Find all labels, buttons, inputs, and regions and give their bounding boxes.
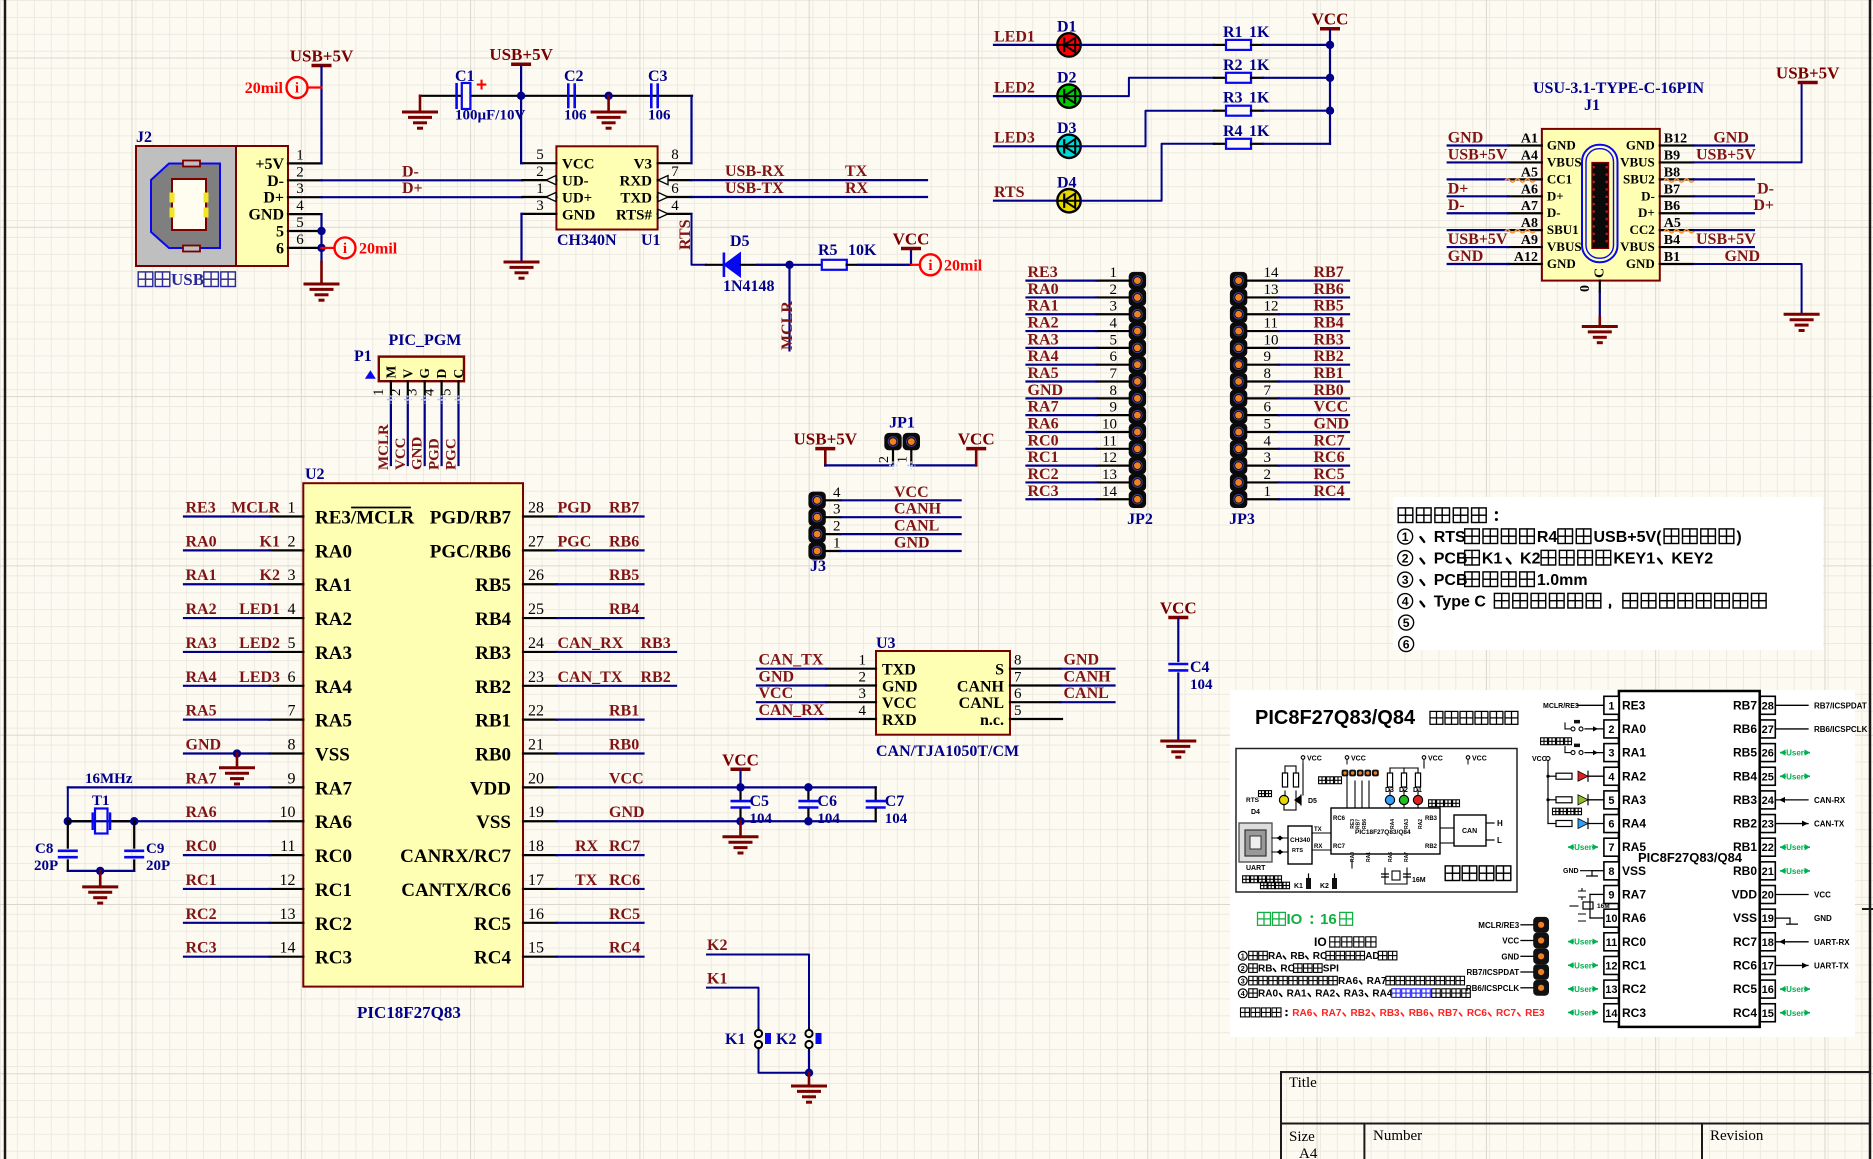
IC U2 PIC18F27Q83 body xyxy=(303,483,523,986)
svg-text:LED1: LED1 xyxy=(994,28,1035,45)
svg-text:RA7: RA7 xyxy=(186,770,217,787)
svg-text:GND: GND xyxy=(1563,868,1579,875)
svg-text:15: 15 xyxy=(528,940,544,957)
P1 pin 2 stub xyxy=(407,381,409,397)
svg-text:1N4148: 1N4148 xyxy=(723,278,775,295)
svg-text:VCC: VCC xyxy=(958,430,995,449)
wire J1 A4 xyxy=(1448,161,1508,163)
svg-text:VCC: VCC xyxy=(1502,937,1519,946)
U2 pin 12 stub xyxy=(270,888,304,890)
capacitor C1 (electrolytic) xyxy=(455,83,458,109)
svg-text:19: 19 xyxy=(1762,913,1774,925)
svg-text:RE3: RE3 xyxy=(1028,264,1058,281)
P1 pin 4 stub xyxy=(441,381,443,397)
wire U2 pin 22 xyxy=(557,719,644,721)
U2 pin 11 stub xyxy=(270,854,304,856)
J1 pin B6 stub xyxy=(1660,212,1694,214)
U1 pin 4 stub xyxy=(658,213,692,215)
svg-text:RA4: RA4 xyxy=(315,677,352,698)
svg-text:VSS: VSS xyxy=(1733,911,1757,925)
U1 RXD pin arrow xyxy=(658,176,668,185)
inset label 可用IO 16条 xyxy=(1258,912,1271,925)
svg-text:A8: A8 xyxy=(1521,216,1538,231)
svg-text:20mil: 20mil xyxy=(359,240,398,257)
svg-text:RC1: RC1 xyxy=(1622,958,1646,972)
svg-text:RC6: RC6 xyxy=(609,872,640,889)
svg-text:MCLR/RE3: MCLR/RE3 xyxy=(1543,703,1579,710)
svg-text:U3: U3 xyxy=(876,635,896,652)
inset mini 应用模块 label xyxy=(1445,866,1460,881)
svg-text:10K: 10K xyxy=(848,242,877,259)
JP2 pin 14 xyxy=(1129,491,1146,508)
JP2 pin 5 xyxy=(1129,339,1146,356)
svg-text:RA5: RA5 xyxy=(186,703,217,720)
svg-text:6: 6 xyxy=(671,181,679,197)
svg-text:PIC8F27Q83/Q84: PIC8F27Q83/Q84 xyxy=(1255,707,1416,729)
svg-text:2: 2 xyxy=(1110,282,1118,298)
svg-text:VCC: VCC xyxy=(1307,756,1322,763)
svg-text:RA5: RA5 xyxy=(1622,840,1646,854)
svg-text:LED3: LED3 xyxy=(994,130,1035,147)
svg-text:RB7: RB7 xyxy=(1438,1008,1458,1019)
J1 CC2 squiggle xyxy=(1664,230,1694,233)
svg-text:6: 6 xyxy=(296,232,304,248)
svg-text:RB1: RB1 xyxy=(1733,840,1757,854)
svg-text:RA6: RA6 xyxy=(186,804,217,821)
svg-text:5: 5 xyxy=(439,389,455,397)
wire P1 GND xyxy=(424,398,426,466)
notes line 存在的问题 xyxy=(1398,508,1413,523)
wire U2 pin 25 xyxy=(557,617,644,619)
JP1 pin stubs xyxy=(892,450,894,465)
svg-text:RB3: RB3 xyxy=(1733,793,1757,807)
svg-text:7: 7 xyxy=(1264,383,1272,399)
svg-text:LED2: LED2 xyxy=(239,635,280,652)
wire U3 pin 3 xyxy=(757,701,826,703)
svg-text:3: 3 xyxy=(1110,299,1118,315)
svg-text:B4: B4 xyxy=(1664,233,1680,248)
LED D1 xyxy=(1057,33,1080,56)
svg-text:A5: A5 xyxy=(1521,165,1538,180)
wire J3 pin 1 xyxy=(826,550,841,552)
svg-text:CC2: CC2 xyxy=(1630,222,1655,237)
svg-text:RE3: RE3 xyxy=(186,500,216,517)
svg-text:11: 11 xyxy=(1103,433,1117,449)
svg-text:14: 14 xyxy=(1264,265,1280,281)
svg-text:16: 16 xyxy=(1762,984,1774,996)
wire RTS xyxy=(994,200,1057,202)
U2 pin 15 stub xyxy=(523,956,557,958)
svg-text:CH340N: CH340N xyxy=(557,232,617,249)
wire U2 pin 24 xyxy=(557,651,676,653)
inset chip LED row xyxy=(1548,823,1556,825)
svg-text:K2: K2 xyxy=(1520,551,1541,568)
svg-text:KEY1: KEY1 xyxy=(1613,551,1655,568)
svg-text:RB: RB xyxy=(1290,951,1304,962)
svg-text:D-: D- xyxy=(1757,180,1774,197)
svg-text:1: 1 xyxy=(371,389,387,397)
svg-text:11: 11 xyxy=(280,838,295,855)
U2 pin 19 stub xyxy=(523,820,557,822)
wire U2 pin 17 xyxy=(557,888,644,890)
svg-text:RB7/ICSPDAT: RB7/ICSPDAT xyxy=(1814,701,1867,710)
svg-text:VCC: VCC xyxy=(1160,599,1197,618)
J2 pin 3 stub xyxy=(288,196,322,198)
svg-text:CAN_TX: CAN_TX xyxy=(759,652,824,669)
J1 pin A6 stub xyxy=(1508,195,1542,197)
svg-text:RB7/ICSPDAT: RB7/ICSPDAT xyxy=(1466,968,1519,977)
wire U1 GND down xyxy=(522,213,523,215)
svg-text:14: 14 xyxy=(280,940,296,957)
wire D5 to junction xyxy=(741,264,790,266)
svg-text:104: 104 xyxy=(817,811,840,827)
J2 pin 5 stub xyxy=(288,230,322,232)
ground symbol (J1 right) xyxy=(1784,313,1820,316)
svg-text:RB7: RB7 xyxy=(1314,264,1344,281)
connector JP1 pin 2 xyxy=(884,433,901,450)
svg-text:VCC: VCC xyxy=(1312,10,1349,29)
svg-text:A4: A4 xyxy=(1299,1146,1318,1159)
svg-text:V3: V3 xyxy=(634,157,652,173)
svg-text:3: 3 xyxy=(288,567,296,584)
svg-text:VSS: VSS xyxy=(315,745,350,766)
svg-text:RB5: RB5 xyxy=(475,575,511,596)
svg-text:4: 4 xyxy=(1402,594,1409,608)
svg-text:CAN_RX: CAN_RX xyxy=(759,702,825,719)
notes line 5 xyxy=(1399,615,1414,630)
svg-text:VCC: VCC xyxy=(759,685,794,702)
svg-text:5: 5 xyxy=(536,147,544,163)
svg-text:Number: Number xyxy=(1373,1128,1422,1144)
svg-text:K2: K2 xyxy=(1320,883,1329,890)
svg-text:RB3: RB3 xyxy=(475,643,511,664)
svg-text:D: D xyxy=(434,369,449,379)
wire K2 xyxy=(707,955,809,1029)
ground symbol (K buttons) xyxy=(808,1073,811,1086)
svg-text:RA6: RA6 xyxy=(1622,911,1646,925)
svg-text:RC1: RC1 xyxy=(186,872,217,889)
svg-text:PGD: PGD xyxy=(427,438,443,470)
svg-text:USB+5V(: USB+5V( xyxy=(1593,529,1662,546)
connector J3 pin 2 xyxy=(808,525,825,542)
U3 pin 4 stub xyxy=(826,718,876,720)
svg-text:R4: R4 xyxy=(1223,123,1243,140)
resistor R3 xyxy=(1214,110,1226,112)
wire J1 B7 D- xyxy=(1694,195,1754,197)
svg-text:D5: D5 xyxy=(1308,798,1317,805)
inset mini CH340 box xyxy=(1288,826,1312,864)
svg-text:C7: C7 xyxy=(885,793,905,810)
svg-text:RA7: RA7 xyxy=(1367,976,1387,987)
svg-text:RA6: RA6 xyxy=(1388,852,1394,862)
svg-text:RTS: RTS xyxy=(1292,848,1303,854)
svg-text:B6: B6 xyxy=(1664,199,1680,214)
svg-text:CAN_TX: CAN_TX xyxy=(558,669,623,686)
inset chip LED row xyxy=(1548,775,1556,777)
svg-text:J3: J3 xyxy=(810,558,826,575)
svg-text:RC6: RC6 xyxy=(1314,449,1345,466)
svg-text:RC7: RC7 xyxy=(1333,844,1346,850)
svg-text:User: User xyxy=(1574,1009,1592,1018)
svg-text:C3: C3 xyxy=(648,68,668,85)
svg-text:S: S xyxy=(995,662,1004,679)
svg-text:P1: P1 xyxy=(354,348,372,365)
svg-text:RC2: RC2 xyxy=(1028,466,1059,483)
svg-text:4: 4 xyxy=(288,601,296,618)
inset image background xyxy=(1230,690,1855,1037)
resistor R5 xyxy=(790,264,823,266)
svg-text:VBUS: VBUS xyxy=(1547,239,1582,254)
LED D3 xyxy=(1057,135,1080,158)
svg-text:UART-TX: UART-TX xyxy=(1814,961,1849,970)
svg-text:CH340: CH340 xyxy=(1290,837,1311,844)
svg-text:20: 20 xyxy=(528,770,544,787)
svg-text:i: i xyxy=(343,241,347,257)
svg-text:D+: D+ xyxy=(1638,205,1655,220)
annotation 20mil circle (J2 pin6) xyxy=(322,247,335,249)
junction rail/USB+5V xyxy=(517,92,525,100)
svg-text:7: 7 xyxy=(1014,670,1022,686)
svg-text:3: 3 xyxy=(536,198,544,214)
inset chip pin 11 xyxy=(1604,933,1619,951)
svg-text:RC7: RC7 xyxy=(1733,935,1757,949)
svg-text:RA2: RA2 xyxy=(1028,315,1059,332)
ground symbol (J1 shield) xyxy=(1599,318,1602,327)
svg-text:RE3/MCLR: RE3/MCLR xyxy=(315,508,415,529)
JP3 pin 1 xyxy=(1230,491,1247,508)
IC U1 CH340N body xyxy=(556,146,657,229)
wire J1 B12 GND xyxy=(1694,144,1754,146)
notes line 3 xyxy=(1398,572,1413,587)
svg-text:RB4: RB4 xyxy=(1733,769,1757,783)
svg-text:RA4: RA4 xyxy=(186,669,217,686)
U2 pin 26 stub xyxy=(523,583,557,585)
wire U2 pin 18 xyxy=(557,854,644,856)
svg-text:G: G xyxy=(417,368,432,379)
U1 UD+ pin arrow xyxy=(546,192,556,201)
wire U2 pin 16 xyxy=(557,922,644,924)
svg-text:LED1: LED1 xyxy=(239,601,280,618)
svg-text:LED3: LED3 xyxy=(239,669,280,686)
U2 pin 23 stub xyxy=(523,685,557,687)
svg-text:2: 2 xyxy=(288,533,296,550)
svg-text:RB2: RB2 xyxy=(1733,817,1757,831)
svg-text:User: User xyxy=(1786,772,1804,781)
svg-text:D+: D+ xyxy=(402,180,423,197)
svg-text:USB+5V: USB+5V xyxy=(1696,146,1756,163)
svg-text:VBUS: VBUS xyxy=(1620,239,1655,254)
wire U2 pin 23 xyxy=(557,685,676,687)
svg-text:12: 12 xyxy=(1102,450,1117,466)
svg-text:RB7: RB7 xyxy=(609,500,639,517)
U2 pin 25 stub xyxy=(523,617,557,619)
svg-text:13: 13 xyxy=(1102,467,1117,483)
svg-text:6: 6 xyxy=(1264,400,1272,416)
inset chip pin 4 xyxy=(1604,767,1619,785)
connector J2 USB-B graphic xyxy=(151,164,220,249)
J1 SBU2 squiggle xyxy=(1664,179,1694,182)
svg-text:GND: GND xyxy=(1028,382,1064,399)
svg-text:UART-RX: UART-RX xyxy=(1814,938,1850,947)
svg-text:GND: GND xyxy=(1547,138,1576,153)
svg-text:RA6: RA6 xyxy=(315,812,352,833)
svg-text:RB6: RB6 xyxy=(609,533,639,550)
inset chip pin 18 xyxy=(1760,933,1775,951)
svg-text:3: 3 xyxy=(405,389,421,397)
svg-text:RC2: RC2 xyxy=(315,914,352,935)
LED D4 xyxy=(1057,189,1080,212)
svg-text:RA1: RA1 xyxy=(315,575,352,596)
svg-text:RC: RC xyxy=(1280,964,1294,975)
svg-text:RC3: RC3 xyxy=(315,948,352,969)
wire D2 to R2 xyxy=(1081,78,1214,96)
junction C6 bottom xyxy=(804,817,812,825)
capacitor C5 xyxy=(739,787,741,799)
inset chip pin 1 xyxy=(1604,696,1619,714)
svg-text:6: 6 xyxy=(276,240,284,257)
svg-text:C8: C8 xyxy=(35,841,53,857)
svg-text:VCC: VCC xyxy=(722,750,759,769)
svg-text:104: 104 xyxy=(750,811,773,827)
svg-text:USB+5V: USB+5V xyxy=(794,430,858,449)
svg-text:C9: C9 xyxy=(146,841,164,857)
svg-text:VBUS: VBUS xyxy=(1620,154,1655,169)
U2 pin 28 stub xyxy=(523,515,557,517)
svg-text:6: 6 xyxy=(1608,819,1614,831)
svg-text:9: 9 xyxy=(1264,349,1272,365)
svg-text:RC7: RC7 xyxy=(609,838,640,855)
svg-text:USB+5V: USB+5V xyxy=(1448,146,1508,163)
svg-text:15: 15 xyxy=(1762,1008,1774,1020)
svg-text:K2: K2 xyxy=(776,1031,796,1048)
svg-text:VCC: VCC xyxy=(1532,756,1547,763)
svg-text:2: 2 xyxy=(859,670,867,686)
svg-text:GND: GND xyxy=(1814,914,1832,923)
svg-text:KEY2: KEY2 xyxy=(1671,551,1713,568)
svg-text:SPI: SPI xyxy=(1323,964,1339,975)
LED D2 xyxy=(1057,84,1080,107)
svg-text:PIC_PGM: PIC_PGM xyxy=(389,332,462,349)
svg-text:B7: B7 xyxy=(1664,182,1680,197)
svg-text:RC4: RC4 xyxy=(609,940,640,957)
J2 pin 6 stub xyxy=(288,247,322,249)
svg-text:RA3: RA3 xyxy=(315,643,352,664)
switch K1 xyxy=(758,1028,760,1030)
svg-text:RB3: RB3 xyxy=(1425,816,1438,822)
svg-text:10: 10 xyxy=(1264,332,1279,348)
svg-text:RC2: RC2 xyxy=(1622,982,1646,996)
svg-text:GND: GND xyxy=(1501,952,1519,961)
svg-text:VCC: VCC xyxy=(1351,756,1366,763)
svg-text:RB4: RB4 xyxy=(475,609,511,630)
junction VCC-R2 xyxy=(1326,74,1334,82)
wire U3 pin 7 xyxy=(1061,684,1115,686)
U3 pin 3 stub xyxy=(826,701,876,703)
junction VCC-R1 xyxy=(1326,41,1334,49)
svg-text:RB7: RB7 xyxy=(1356,819,1362,829)
junction RA6/crystal xyxy=(64,817,72,825)
inset chip pin 28 xyxy=(1760,696,1775,714)
wire D3 to R3 xyxy=(1081,111,1214,147)
svg-text:RTS: RTS xyxy=(1246,797,1260,804)
inset mini resistors xyxy=(1282,773,1287,787)
svg-text:User: User xyxy=(1786,843,1804,852)
svg-text:MCLR: MCLR xyxy=(376,424,392,470)
svg-text:+5V: +5V xyxy=(255,156,284,173)
inset chip crystal xyxy=(1590,893,1604,895)
wire LED1 xyxy=(994,44,1057,46)
inset mini VCC symbols xyxy=(1301,756,1305,760)
connector J1 body xyxy=(1542,129,1660,281)
svg-text:16MHz: 16MHz xyxy=(85,771,133,787)
svg-text:5: 5 xyxy=(1608,795,1614,807)
svg-text:RXD: RXD xyxy=(620,174,653,190)
U1 TXD pin arrow xyxy=(658,192,668,201)
wire C1-C3 rail xyxy=(420,95,692,97)
inset mini PIC box xyxy=(1331,808,1440,854)
svg-text:CANH: CANH xyxy=(957,679,1005,696)
svg-text:9: 9 xyxy=(1110,400,1118,416)
svg-text:T1: T1 xyxy=(92,793,110,809)
svg-text:GND: GND xyxy=(1448,248,1484,265)
svg-text:PGC: PGC xyxy=(444,438,460,470)
wire VCC rail vertical xyxy=(1329,30,1331,144)
svg-text:PIC18F27Q83: PIC18F27Q83 xyxy=(357,1003,461,1022)
svg-text:1: 1 xyxy=(536,181,544,197)
svg-text:RB0: RB0 xyxy=(1733,864,1757,878)
svg-text:D5: D5 xyxy=(730,233,750,250)
U1 pin 5 stub xyxy=(523,162,557,164)
svg-text:VDD: VDD xyxy=(470,778,511,799)
svg-text:CANTX/RC6: CANTX/RC6 xyxy=(401,880,511,901)
J1 pin B9 stub xyxy=(1660,161,1694,163)
U3 pin 6 stub xyxy=(1010,701,1061,703)
svg-text:RA1: RA1 xyxy=(186,567,217,584)
svg-text:RB: RB xyxy=(1258,964,1272,975)
svg-text:21: 21 xyxy=(1762,866,1774,878)
svg-text:2: 2 xyxy=(296,164,304,180)
svg-text:RA4: RA4 xyxy=(1390,819,1396,829)
svg-text:CANH: CANH xyxy=(894,501,942,518)
svg-text:B1: B1 xyxy=(1664,250,1680,265)
svg-text:RC3: RC3 xyxy=(1028,483,1059,500)
U2 pin 3 stub xyxy=(270,583,304,585)
svg-text:AD: AD xyxy=(1365,951,1379,962)
svg-text:D-: D- xyxy=(1448,197,1465,214)
svg-text:CANL: CANL xyxy=(894,518,939,535)
svg-text:2: 2 xyxy=(877,456,892,463)
svg-text:UD-: UD- xyxy=(562,174,589,190)
svg-text:TX: TX xyxy=(575,872,598,889)
svg-text:K2: K2 xyxy=(260,567,280,584)
annotation 20mil circle (R5) xyxy=(911,264,920,266)
svg-text:RC5: RC5 xyxy=(1733,982,1757,996)
svg-text:PIC8F27Q83/Q84: PIC8F27Q83/Q84 xyxy=(1638,850,1743,865)
svg-text:GND: GND xyxy=(1064,652,1100,669)
wire V3 pin8 up to rail xyxy=(690,96,692,163)
svg-text:VCC: VCC xyxy=(1314,399,1349,416)
svg-text:PGD: PGD xyxy=(558,500,592,517)
svg-text:UART: UART xyxy=(1246,865,1266,872)
svg-text:PGC: PGC xyxy=(558,533,592,550)
svg-text:CAN_RX: CAN_RX xyxy=(558,635,624,652)
svg-text:9: 9 xyxy=(288,770,296,787)
inset note 系统占用 xyxy=(1241,1008,1250,1017)
svg-text:RA7: RA7 xyxy=(1404,852,1410,862)
svg-text:3: 3 xyxy=(1264,450,1272,466)
svg-text:RTS#: RTS# xyxy=(616,207,653,223)
wire J1 A7 xyxy=(1448,212,1508,214)
